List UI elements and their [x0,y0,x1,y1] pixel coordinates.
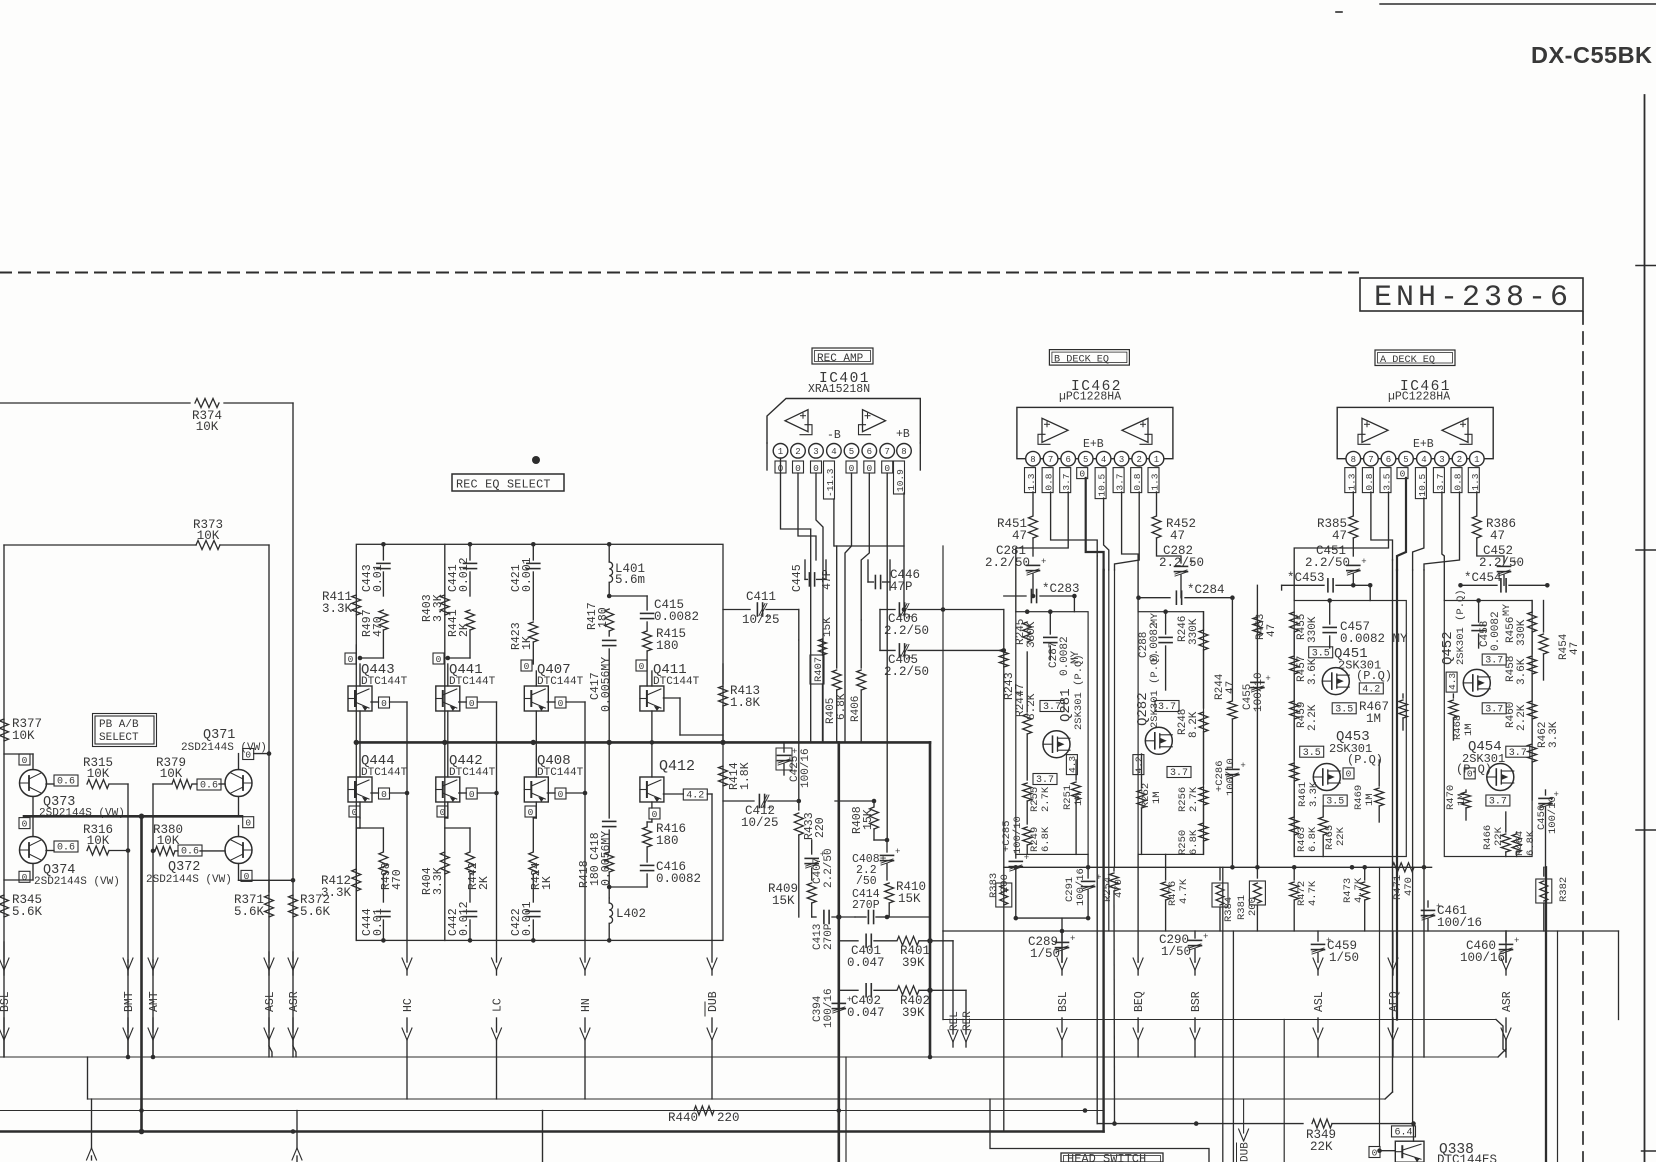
svg-text:4.3: 4.3 [1447,673,1458,690]
svg-text:4: 4 [1101,455,1106,465]
voltage box 0 Q407 top [521,660,532,672]
svg-text:0.001: 0.001 [521,901,534,936]
svg-text:10.5: 10.5 [1417,473,1428,496]
resistor R497 [361,609,388,658]
svg-text:PB A/B: PB A/B [99,719,139,731]
net BSL [0,942,12,1057]
svg-text:100/16: 100/16 [1437,916,1482,930]
capacitor C290 [1159,931,1208,962]
capacitor C459 [1312,931,1360,965]
svg-text:SELECT: SELECT [99,732,139,744]
svg-text:DTC144T: DTC144T [537,676,584,688]
label IC401 [819,371,870,387]
long vertical b3 [1108,570,1110,931]
svg-text:100/16: 100/16 [1460,951,1505,965]
voltage box 0 Q444 base [371,742,409,940]
page top edge [1336,4,1656,12]
transistor Q371 [181,728,267,797]
fet Q451 [1322,646,1392,695]
svg-text:ASL: ASL [264,991,277,1012]
svg-text:220: 220 [814,817,827,838]
voltage box 6.4 [1392,1124,1416,1142]
svg-text:2K: 2K [458,623,471,637]
voltage box 3.7 Q452 top [1482,654,1506,667]
capacitor C452 [1479,544,1524,585]
svg-text:5.6K: 5.6K [234,905,265,919]
fet Q454 [1456,739,1514,791]
capacitor C425 [776,742,812,788]
voltage box 0 Q373 bottom [19,797,33,830]
svg-text:AMT: AMT [148,991,161,1012]
resistor R440 [668,1106,740,1125]
svg-text:10K: 10K [160,767,183,781]
wire ASL vertical [269,545,272,1057]
transistor Q372 [146,837,252,887]
resistor R462 [1528,721,1560,800]
label A DECK EQ [1375,350,1455,366]
wire deck mid rail [1004,865,1432,870]
net LC [492,940,505,1099]
svg-text:8.2K: 8.2K [1026,693,1038,720]
voltage box 4.3 Q452 [1446,672,1458,692]
voltage box 4.2 Q282 [1133,755,1145,775]
svg-text:MY: MY [1502,604,1513,616]
svg-text:-11.3: -11.3 [825,468,836,497]
svg-text:1.8K: 1.8K [739,762,752,790]
capacitor C421 [510,542,540,620]
resistor R385 [1317,492,1358,556]
bus line 2 [88,1057,1393,1099]
svg-text:C445: C445 [791,564,804,592]
svg-text:4.7K: 4.7K [1307,880,1319,906]
svg-text:0.012: 0.012 [458,557,471,592]
svg-text:2SK301 (P.Q): 2SK301 (P.Q) [1149,652,1161,728]
svg-text:+: + [1041,557,1046,567]
svg-text:2SD2144S (VW): 2SD2144S (VW) [146,874,232,886]
svg-text:2.2/50: 2.2/50 [1305,556,1350,570]
resistor R460 [1505,701,1537,742]
wire Q374 top [32,816,34,836]
svg-text:DTC144T: DTC144T [361,676,408,688]
svg-text:+: + [1240,761,1245,771]
svg-text:8: 8 [1351,455,1356,465]
svg-text:BMT: BMT [123,991,136,1012]
transistor Q444 [348,742,408,802]
svg-text:BSL: BSL [0,991,12,1012]
resistor R414 [719,762,753,790]
svg-text:E+B: E+B [1413,438,1434,451]
IC401 pins 1-8 [773,444,911,459]
svg-text:MY: MY [1150,613,1161,625]
resistor R469 [1353,760,1384,822]
wire 846 [846,1020,1284,1162]
long vertical a2 bold [1396,570,1398,1020]
resistor R251 [1062,760,1085,854]
label -B [827,429,841,442]
resistor R379 [153,756,197,789]
resistor R464 [1512,830,1537,856]
svg-text:330K: 330K [1516,619,1528,646]
resistor R246 [1177,612,1208,708]
svg-text:(P.Q): (P.Q) [1347,753,1383,767]
svg-text:3.5: 3.5 [1335,704,1353,715]
svg-text:100/10: 100/10 [1012,816,1024,854]
svg-text:1K: 1K [521,636,534,650]
svg-text:0: 0 [22,818,28,829]
svg-text:Q412: Q412 [659,758,695,775]
wire Q373 collector [4,754,33,770]
svg-text:3.5: 3.5 [1303,748,1321,759]
wire pin6 [861,473,869,620]
resistor R401 [897,936,953,970]
label HEAD SWITCH [1061,1152,1163,1162]
capacitor C451 [1305,544,1367,588]
inductor L401 [607,542,645,596]
voltage box 3.7 Q281 top [1040,701,1064,714]
svg-text:DUB: DUB [707,991,720,1012]
resistor R423 [510,622,538,664]
svg-text:0.6: 0.6 [181,847,199,858]
svg-text:BSR: BSR [1190,991,1203,1012]
svg-text:0.6: 0.6 [57,843,75,854]
svg-text:22K: 22K [1493,826,1505,846]
resistor R402 [897,986,966,1020]
svg-text:10K: 10K [196,420,219,434]
svg-text:220: 220 [717,1111,740,1125]
svg-text:2: 2 [1457,455,1462,465]
voltage box 3.5 Q453 left [1332,703,1356,716]
svg-text:10K: 10K [197,529,220,543]
bus line 4 bold [0,1130,1104,1132]
svg-text:0: 0 [22,872,28,883]
svg-text:+: + [895,847,900,857]
label REC AMP [812,348,873,365]
wire IC461 p2 [1424,492,1460,570]
svg-text:0: 0 [245,818,251,829]
svg-text:2.2/50: 2.2/50 [823,848,835,888]
IC462 pins [1026,451,1164,466]
wire pin5 [845,473,852,742]
svg-text:+: + [1096,873,1101,883]
svg-text:330K: 330K [1307,616,1319,643]
wire 1379 to Q338 [1379,867,1381,1146]
svg-text:3: 3 [813,447,818,457]
rec eq select box [356,544,723,940]
capacitor C443 [361,542,390,596]
label +B [896,428,910,441]
wire pin4 [833,499,835,546]
svg-text:2.7K: 2.7K [1040,786,1052,812]
net BSL deck [1057,931,1070,1057]
svg-text:1: 1 [1474,455,1479,465]
wire IC462 p5 E+B [1086,478,1104,570]
net BMT [123,958,136,1057]
svg-text:1/50: 1/50 [1329,951,1359,965]
svg-text:0: 0 [381,698,387,709]
net AMT [148,958,161,1057]
svg-text:47: 47 [1012,529,1027,543]
svg-text:0: 0 [524,661,530,672]
voltage box 0 Q374 bottom [4,864,33,884]
svg-text:330K: 330K [1026,621,1038,648]
svg-text:5.6K: 5.6K [300,905,331,919]
svg-text:470: 470 [1403,877,1415,896]
long rail y931 [943,546,1619,1020]
op-amp IC461 B [1442,418,1472,444]
wire REL [948,941,958,1047]
wire col2 edge [444,544,446,940]
resistor R472 [1290,867,1319,931]
wire Q411 base [663,698,723,735]
svg-text:47P: 47P [821,569,834,590]
Q451 network box [1294,598,1406,856]
border tick 2 [1636,549,1656,551]
svg-text:10/25: 10/25 [741,816,779,830]
capacitor C453 [1282,571,1373,601]
svg-text:4: 4 [1421,455,1426,465]
wire jog row [767,443,920,546]
svg-text:2SD2144S (VW): 2SD2144S (VW) [34,876,120,888]
net DUB head switch [1237,1099,1252,1162]
svg-text:Q452: Q452 [1440,631,1456,665]
op-amp IC401 left [785,410,812,435]
svg-text:6.8K: 6.8K [1188,829,1200,855]
label uPC1228HA IC461 [1388,391,1450,404]
svg-text:0: 0 [381,789,387,800]
dashed sheet boundary horizontal [0,272,1358,274]
resistor R345 [0,893,43,919]
voltage box 0 Q454 [1464,768,1475,780]
svg-text:3.7: 3.7 [1115,473,1126,490]
svg-text:2.2K: 2.2K [1516,704,1528,731]
svg-text:47P: 47P [890,580,913,594]
capacitor C408 [852,840,900,888]
svg-text:2.2K: 2.2K [1307,704,1319,731]
wire IC462 p2 [1115,492,1140,570]
resistor R252 [1137,754,1163,854]
capacitor C460 [1460,931,1519,965]
resistor R415 [643,627,686,686]
resistor R371 [234,880,274,919]
wire IC461 p3 [1442,492,1444,601]
label E+B IC462 [1083,438,1104,451]
svg-text:1K: 1K [541,876,554,890]
svg-text:0.6: 0.6 [57,777,75,788]
svg-text:15K: 15K [898,892,921,906]
wire IC461 p6 [1294,492,1388,601]
resistor R454 [1539,601,1581,681]
svg-text:0: 0 [652,809,658,820]
svg-text:+: + [1554,790,1559,800]
transistor Q373 [20,770,125,820]
long vertical b2 bold [1102,570,1104,1132]
label E+B IC461 [1413,438,1434,451]
transistor Q441 [436,656,496,711]
svg-text:3.3K: 3.3K [432,594,445,622]
svg-text:0: 0 [469,789,475,800]
wire pin3 [816,473,823,742]
capacitor C414 [852,888,887,924]
svg-text:0: 0 [22,755,28,766]
voltage box 10.9 pin8 [894,461,907,494]
resistor R404 [421,852,449,895]
svg-text:1/50: 1/50 [1161,945,1191,959]
voltage box -11.3 pin4 [824,461,837,499]
svg-text:*C284: *C284 [1187,583,1225,597]
svg-text:4.7K: 4.7K [1178,878,1190,904]
svg-text:180: 180 [656,639,679,653]
svg-text:ENH-238-6: ENH-238-6 [1374,281,1572,315]
svg-text:0.8: 0.8 [1453,473,1464,490]
resistor R316 [46,823,128,855]
svg-text:0: 0 [558,789,564,800]
resistor R256 [1177,786,1208,812]
svg-text:XRA15218N: XRA15218N [808,383,870,396]
svg-text:B DECK EQ: B DECK EQ [1054,355,1109,366]
voltage box 0 Q372 bottom [239,864,296,883]
voltage box 0 Q411 top [636,660,647,672]
svg-text:BSL: BSL [1057,991,1070,1012]
net HC [402,940,415,1099]
svg-text:10K: 10K [87,834,110,848]
svg-text:DTC144T: DTC144T [361,767,408,779]
svg-text:1.8K: 1.8K [730,696,761,710]
svg-text:HC: HC [402,998,415,1012]
wire IC461 p7 [1371,492,1393,560]
svg-text:0.0082: 0.0082 [656,872,701,886]
long vertical a1 [1392,560,1394,1092]
resistor R384 boxed [1212,867,1235,931]
svg-text:10.5: 10.5 [1097,473,1108,496]
supply vertical bold right [1545,867,1547,1162]
svg-text:1M: 1M [1463,723,1475,736]
capacitor C405 [880,610,1004,680]
capacitor C401 [839,934,896,970]
svg-text:4.2: 4.2 [686,791,704,802]
transistor Q374 [20,837,120,889]
resistor R457 [1290,632,1319,700]
svg-text:1.3: 1.3 [1150,473,1161,490]
wire col1 lower [356,818,360,940]
long vertical a3 [1412,570,1414,1126]
svg-text:0.0082: 0.0082 [1490,611,1502,651]
resistor R461 [1290,763,1320,812]
svg-text:8.2K: 8.2K [1188,711,1200,738]
right rail vertical [1618,931,1620,1020]
svg-text:3: 3 [1119,455,1124,465]
resistor R407 boxed [810,617,834,743]
net BSR [1190,958,1203,1057]
net ASL [264,952,277,1057]
svg-text:HN: HN [580,998,593,1012]
resistor R441 [447,609,475,658]
label REL [949,1011,961,1031]
svg-text:0.8: 0.8 [1364,473,1375,490]
svg-text:0: 0 [849,463,855,474]
capacitor C446 [868,560,920,594]
resistor R373 [4,518,269,550]
bold vertical rail [139,816,145,1134]
svg-text:0: 0 [558,698,564,709]
svg-text:+: + [847,995,852,1005]
resistor R471 [1392,863,1415,900]
resistor R412 [321,869,361,900]
svg-text:DTC144T: DTC144T [537,767,584,779]
title DX-C55BK [1531,42,1653,68]
svg-text:2SK301 (P.Q): 2SK301 (P.Q) [1455,589,1467,665]
resistor R244 [1214,598,1237,766]
bold rail right segment [929,742,932,1057]
capacitor C402 [839,984,896,1020]
svg-text:AEQ: AEQ [1388,991,1401,1012]
capacitor C407 [805,840,835,888]
svg-text:(P.Q): (P.Q) [1456,763,1492,777]
svg-text:47: 47 [1266,624,1278,637]
svg-text:270P: 270P [852,899,880,912]
svg-text:1/50: 1/50 [1030,947,1060,961]
fet Q281 [1043,654,1085,757]
svg-text:2.2/50: 2.2/50 [884,624,929,638]
resistor R433 [794,640,827,917]
svg-text:15K: 15K [772,894,795,908]
svg-text:470: 470 [391,869,404,890]
svg-text:ASR: ASR [1501,991,1514,1012]
label IC462 [1071,379,1122,395]
voltage box 0 Q412 emitter [647,802,660,822]
svg-text:DUB: DUB [1240,1142,1252,1162]
svg-text:7: 7 [1048,455,1053,465]
svg-text:DTC144T: DTC144T [653,676,700,688]
svg-text:0: 0 [795,463,801,474]
svg-text:0.0082: 0.0082 [654,610,699,624]
resistor R349 [1097,1119,1416,1154]
net AEQ [1388,958,1401,1057]
net HN [580,940,593,1099]
resistor R442 [445,828,491,902]
svg-text:+: + [1189,558,1194,568]
border tick bottom right [1642,1150,1656,1152]
svg-text:+: + [1070,934,1075,944]
long vertical b4 [1114,570,1116,867]
bus line 3 [0,1110,1102,1112]
svg-text:3.7: 3.7 [1435,473,1446,490]
svg-text:0.01: 0.01 [372,564,385,592]
svg-text:6.8K: 6.8K [1307,826,1319,852]
wire IC461 p5 E+B [1397,478,1406,570]
wire IC461 p4 [1413,498,1424,570]
svg-text:100/16: 100/16 [800,748,812,788]
voltage box 0.6 Q371 [197,779,225,792]
resistor R254 [1102,867,1125,1123]
svg-text:8: 8 [901,447,906,457]
op-amp IC462 B [1122,418,1152,444]
long rail y1020 [943,1020,1506,1053]
resistor R453 [1253,614,1278,640]
capacitor C287 [1044,612,1082,676]
wire pin7 [886,473,888,840]
wire Q411 emitter [650,711,655,745]
net ASR [288,952,301,1057]
svg-text:3: 3 [1439,455,1444,465]
resistor R470 [1445,785,1471,820]
svg-text:2K: 2K [478,876,491,890]
voltage box 3.7 Q452 mid [1482,703,1506,716]
capacitor C412 [723,795,801,831]
svg-text:2: 2 [795,447,800,457]
wire IC462 p4 [1104,498,1109,570]
svg-text:6.8K: 6.8K [836,693,848,720]
voltage box 0 Q444 emitter [349,802,360,818]
